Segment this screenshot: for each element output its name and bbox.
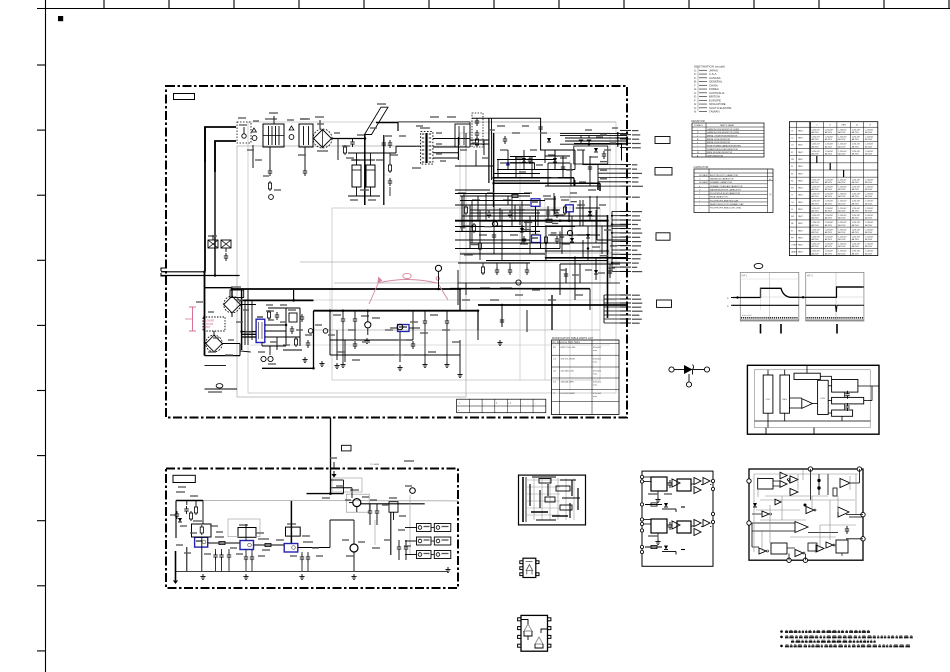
svg-text:AB 250V: AB 250V <box>825 181 833 184</box>
resistor R141 <box>544 220 546 222</box>
svg-text:68137 100-330: 68137 100-330 <box>561 347 577 349</box>
connector CN101 AC input <box>161 268 166 276</box>
IC203 dual comparator diagram <box>640 471 714 566</box>
wire pin feeders mid <box>611 211 627 271</box>
svg-text:R1: R1 <box>791 173 793 175</box>
ground G5 <box>424 362 426 365</box>
svg-text:AB 250V: AB 250V <box>852 224 860 227</box>
ground G13 <box>399 365 401 368</box>
svg-text:PARTS NAME: PARTS NAME <box>720 124 735 127</box>
capacitor C146 <box>565 271 567 274</box>
svg-text:POLYESTER FILM CAPACITOR: POLYESTER FILM CAPACITOR <box>710 192 741 195</box>
svg-text:NO MARK: NO MARK <box>699 174 709 177</box>
capacitor C109 <box>383 140 385 143</box>
resistor R112 <box>295 337 297 339</box>
wire main bus B- <box>240 299 314 301</box>
pink bracket marker <box>185 307 196 331</box>
ground marker entry <box>331 474 336 478</box>
wire stage1 to stage2 <box>208 537 240 545</box>
wire HV rail <box>348 123 417 206</box>
transistor pair Q103 <box>258 352 276 364</box>
wire control density <box>455 193 617 258</box>
label top right of box <box>404 460 414 462</box>
destination parts matrix table <box>789 122 877 256</box>
svg-text:PART: PART <box>798 208 804 211</box>
capacitor C110 <box>389 140 391 143</box>
wire low rail <box>240 290 314 368</box>
capacitor C104 <box>301 314 303 317</box>
svg-text:AB 250V: AB 250V <box>852 145 860 148</box>
connector CB-1 <box>655 137 670 144</box>
svg-text:PART: PART <box>798 165 804 168</box>
capacitor C141 <box>523 236 525 239</box>
waveform leader lines <box>761 324 838 334</box>
wire control cluster <box>455 196 627 318</box>
svg-text:AB 250V: AB 250V <box>838 195 846 198</box>
svg-text:AB 250V: AB 250V <box>838 202 846 205</box>
svg-text:AB 250V: AB 250V <box>825 245 833 248</box>
svg-text:AB 250V: AB 250V <box>865 195 873 198</box>
svg-text:AB 250V: AB 250V <box>838 238 846 241</box>
wire fuse branch <box>247 145 262 168</box>
ground G1 <box>304 357 306 360</box>
svg-text:SYMBOL: SYMBOL <box>694 125 704 127</box>
svg-text:AB 250V: AB 250V <box>838 188 846 191</box>
smoothing capacitor C111 <box>351 160 361 187</box>
wire table feeds <box>478 310 527 340</box>
svg-text:TAIWAN: TAIWAN <box>709 110 720 114</box>
svg-text:AB 250V: AB 250V <box>812 224 820 227</box>
svg-text:REG: REG <box>782 399 787 401</box>
capacitor C130 <box>540 124 542 127</box>
capacitor C101 <box>225 253 227 256</box>
svg-text:WIRE WOUND RESISTOR: WIRE WOUND RESISTOR <box>707 152 733 154</box>
capacitor C108 <box>352 139 354 142</box>
svg-text:u: u <box>699 197 700 199</box>
svg-text:NO MARK: NO MARK <box>699 181 709 184</box>
regulator IC302 (blue) <box>240 541 254 550</box>
capacitor C103 <box>304 168 306 171</box>
svg-text:MAGNESIUM FILM CAPACITOR: MAGNESIUM FILM CAPACITOR <box>710 188 741 191</box>
svg-text:PART: PART <box>798 172 804 175</box>
ground G7 <box>459 372 461 375</box>
svg-text:FUSE POWER CARBON FILM RES.: FUSE POWER CARBON FILM RES. <box>707 144 742 147</box>
main power supply circuit boundary <box>166 86 627 418</box>
snubber C113 <box>389 178 391 181</box>
capacitor C121 <box>342 316 344 319</box>
svg-text:TANTALUM CAPACITOR: TANTALUM CAPACITOR <box>710 178 734 181</box>
resistor R105 <box>344 145 346 147</box>
svg-text:AB 250V: AB 250V <box>852 188 860 191</box>
control IC IC104 (blue) <box>566 205 574 212</box>
wire secondary bus <box>314 310 479 312</box>
transistor Q108 <box>397 324 403 330</box>
svg-text:470-002: 470-002 <box>593 359 602 361</box>
svg-text:AB 250V: AB 250V <box>865 210 873 213</box>
regulator components cluster <box>266 310 297 334</box>
registration mark <box>58 16 63 21</box>
waveform ellipse marker <box>754 263 763 268</box>
bridge rectifier D101 <box>313 129 332 151</box>
power transformer T102 <box>203 317 225 331</box>
IC204 lower blocks <box>752 540 848 560</box>
reference stage upper <box>645 503 685 512</box>
wire Q301 out <box>331 488 425 504</box>
bridge rectifier D102 <box>224 296 241 313</box>
svg-text:GEN: GEN <box>841 125 846 127</box>
svg-text:AB 250V: AB 250V <box>865 181 873 184</box>
cement resistor R111 <box>221 240 231 248</box>
wire secondary detail <box>458 126 616 170</box>
connector CB-4 <box>657 300 672 307</box>
connector CB-2 <box>655 168 672 176</box>
wire loop right <box>494 144 622 192</box>
svg-text:470-002: 470-002 <box>593 347 602 349</box>
capacitor C126 <box>354 341 356 344</box>
diode D121 <box>588 211 592 215</box>
capacitor C105 <box>307 340 309 343</box>
wire bottom drops <box>343 324 447 362</box>
ground G2 <box>321 361 323 364</box>
capacitor C202 in IC <box>847 403 849 406</box>
wire bus riser <box>460 289 478 330</box>
thermistor TH102 <box>289 135 294 140</box>
wire bottom section density <box>330 311 460 372</box>
destination legend text <box>694 65 732 114</box>
IC204 input block <box>758 479 774 490</box>
svg-text:AB 250V: AB 250V <box>825 252 833 255</box>
connector link label <box>342 445 352 451</box>
wire feeders upper groups <box>560 165 620 197</box>
IC204 gate cluster <box>773 472 798 495</box>
svg-text:AB 250V: AB 250V <box>825 210 833 213</box>
svg-text:AB 250V: AB 250V <box>812 145 820 148</box>
relay RY101 <box>230 287 244 298</box>
svg-text:PART: PART <box>798 251 804 254</box>
svg-text:AB 250V: AB 250V <box>825 131 833 134</box>
svg-text:AB 250V: AB 250V <box>838 152 846 155</box>
blue tantalum C133 <box>506 162 509 165</box>
svg-text:W: W <box>697 152 699 154</box>
wire standby feed <box>331 418 335 494</box>
transistor Q303 <box>405 486 415 493</box>
svg-text:AB 250V: AB 250V <box>865 145 873 148</box>
capacitor bank stage3 <box>300 552 310 571</box>
svg-text:AB 250V: AB 250V <box>825 152 833 155</box>
svg-text:AB 250V: AB 250V <box>812 252 820 255</box>
labels right pins upper <box>600 128 618 135</box>
capacitor C143 <box>488 210 490 213</box>
svg-text:AB 250V: AB 250V <box>865 202 873 205</box>
svg-text:PART: PART <box>798 137 804 140</box>
svg-text:AB 250V: AB 250V <box>865 152 873 155</box>
wire IC201 internals <box>755 365 880 434</box>
svg-text:AB 250V: AB 250V <box>825 138 833 141</box>
wire standby top rail <box>176 492 458 543</box>
svg-text:AB 250V: AB 250V <box>865 252 873 255</box>
warning triangle 2 <box>289 126 294 130</box>
IC204 right amp <box>833 469 859 496</box>
resistor R143 <box>473 223 475 225</box>
transistor Q102 <box>323 329 328 334</box>
svg-text:AB 250V: AB 250V <box>865 224 873 227</box>
capacitor C132 <box>529 156 531 159</box>
svg-text:JW: JW <box>791 159 794 161</box>
label cluster top chain <box>238 118 406 190</box>
capacitor C147 <box>609 268 611 271</box>
svg-text:473 471-68137: 473 471-68137 <box>561 359 577 361</box>
varistor Z101 <box>263 147 281 199</box>
capacitor C135 <box>588 135 590 138</box>
svg-text:ELECTROLYTIC CAPACITOR: ELECTROLYTIC CAPACITOR <box>710 174 739 177</box>
transformer T101 <box>420 128 433 164</box>
diode D112 <box>594 148 598 152</box>
jumper strap W101 <box>365 104 389 135</box>
wire secondary rails <box>494 133 575 207</box>
svg-text:AB 250V: AB 250V <box>852 231 860 234</box>
wire pin feeders lower <box>604 295 627 323</box>
svg-text:AB 250V: AB 250V <box>812 217 820 220</box>
thermal fuse marker <box>216 384 223 388</box>
wire upper-mid stubs <box>460 130 495 166</box>
thermistor TH101 <box>252 136 257 141</box>
svg-text:AB 250V: AB 250V <box>812 195 820 198</box>
IC302 bias network <box>238 525 256 541</box>
capacitor bank stage2 <box>244 550 254 572</box>
resistor R102 <box>269 181 271 183</box>
capacitor C125 <box>412 341 414 344</box>
svg-text:AB 250V: AB 250V <box>865 188 873 191</box>
svg-text:AB 250V: AB 250V <box>852 252 860 255</box>
wire secondary rectifier comb <box>455 150 598 190</box>
svg-text:PART: PART <box>798 144 804 147</box>
circuit label bottom <box>173 475 195 482</box>
capacitor C311 <box>376 508 378 511</box>
capacitor C310 <box>369 508 371 511</box>
wire aux winding <box>398 117 470 133</box>
transistor Q105 <box>435 265 441 271</box>
label text <box>208 391 222 393</box>
wire bridge output <box>332 139 364 161</box>
wire sub trunk <box>205 235 233 356</box>
ground G3 <box>342 362 344 365</box>
wire AC line trunk <box>205 127 236 276</box>
svg-text:AB 250V: AB 250V <box>852 245 860 248</box>
control IC IC103 (blue) <box>531 199 540 207</box>
IC204 extra gates <box>753 499 849 551</box>
capacitor symbol table <box>694 165 774 212</box>
ground G17 <box>353 574 355 577</box>
svg-text:PART: PART <box>798 244 804 247</box>
transistor Q107 <box>567 230 572 235</box>
svg-text:AB 250V: AB 250V <box>852 131 860 134</box>
wire left cluster density <box>196 289 335 355</box>
capacitor C123 <box>424 318 426 321</box>
zener D301 <box>178 518 182 522</box>
connector CB-3 <box>656 233 670 240</box>
diode D114 <box>553 158 557 162</box>
wire snubber <box>384 153 390 196</box>
svg-text:0.2ms 50V: 0.2ms 50V <box>742 315 752 317</box>
IC206 DIP-8 package <box>518 615 551 651</box>
svg-text:CEMENT MOULDED RESISTOR: CEMENT MOULDED RESISTOR <box>707 149 738 151</box>
svg-text:WF-1: WF-1 <box>742 275 749 278</box>
capacitor C145 <box>501 317 503 320</box>
wire HV cap links <box>348 153 380 205</box>
IC205 SIP package <box>520 558 539 577</box>
revision strip table <box>457 399 546 413</box>
wire stage3 out <box>298 520 330 548</box>
border frame left rule <box>37 0 46 672</box>
svg-text:POLYPROPYLENE (LOW LOSS): POLYPROPYLENE (LOW LOSS) <box>710 208 741 210</box>
oscilloscope waveform panel 2 <box>799 272 864 321</box>
svg-text:AB 250V: AB 250V <box>865 231 873 234</box>
svg-text:AB 250V: AB 250V <box>838 231 846 234</box>
svg-text:470-002: 470-002 <box>593 371 602 373</box>
svg-text:AB 250V: AB 250V <box>825 224 833 227</box>
border frame top rule <box>37 0 950 9</box>
capacitor C201 in IC <box>847 391 849 394</box>
diode D124 <box>586 234 590 238</box>
svg-text:CORD: CORD <box>791 245 797 247</box>
capacitor C124 <box>446 318 448 321</box>
svg-text:AB 250V: AB 250V <box>825 202 833 205</box>
svg-text:AB 250V: AB 250V <box>838 210 846 213</box>
capacitor C149 <box>561 232 563 235</box>
svg-text:J: J <box>816 125 817 127</box>
svg-text:N:: N: <box>694 110 697 114</box>
diode D111 <box>547 138 551 142</box>
svg-text:CARBON FILM RESISTOR (1/4W): CARBON FILM RESISTOR (1/4W) <box>707 128 739 131</box>
wire AC pair <box>161 272 240 276</box>
wire lower buses <box>450 289 627 330</box>
capacitor C140 <box>509 210 511 213</box>
resistor R145 <box>479 241 481 243</box>
svg-text:AB 250V: AB 250V <box>838 217 846 220</box>
junction nodes dense band <box>203 137 608 369</box>
photocoupler PC101 <box>256 317 265 343</box>
wire mid web <box>228 478 410 555</box>
transistor Q106 <box>492 221 497 226</box>
svg-text:2SC1815 25C: 2SC1815 25C <box>561 371 575 373</box>
svg-text:AB 250V: AB 250V <box>825 231 833 234</box>
svg-text:AB 250V: AB 250V <box>865 238 873 241</box>
cement resistor R110 <box>208 236 218 248</box>
component column dotted <box>472 113 483 147</box>
svg-text:No. Reference Parts Name: No. Reference Parts Name <box>553 341 581 344</box>
block REG <box>780 375 790 413</box>
capacitor C131 <box>504 136 506 139</box>
svg-text:AB 250V: AB 250V <box>838 224 846 227</box>
component labels bottom box <box>176 458 379 492</box>
svg-text:PART: PART <box>798 151 804 154</box>
diode block D110 <box>455 124 470 147</box>
svg-text:SW: SW <box>791 216 794 218</box>
IC204 wiring web <box>752 470 863 552</box>
svg-text:LABEL: LABEL <box>791 251 797 254</box>
svg-text:AB 250V: AB 250V <box>812 231 820 234</box>
svg-text:AB 250V: AB 250V <box>825 217 833 220</box>
capacitor C313 <box>405 544 407 547</box>
wire left drop <box>176 547 187 580</box>
svg-text:PART: PART <box>798 158 804 161</box>
svg-text:PART: PART <box>798 194 804 197</box>
svg-text:R2: R2 <box>791 180 793 182</box>
diode D120 <box>570 238 574 242</box>
svg-text:●: ● <box>699 186 700 188</box>
capacitor C139 <box>589 164 591 167</box>
wire stage2 to stage3 <box>254 539 285 547</box>
connector pins right edge <box>620 130 643 323</box>
reference stage lower <box>645 545 685 554</box>
wire IC1 area <box>242 290 300 350</box>
svg-text:AB 250V: AB 250V <box>825 188 833 191</box>
svg-text:AB 250V: AB 250V <box>812 131 820 134</box>
svg-text:T1: T1 <box>791 195 793 197</box>
svg-text:CERAMIC CAPACITOR: CERAMIC CAPACITOR <box>710 181 733 184</box>
capacitor C102 <box>269 168 271 171</box>
svg-text:TO MAIN: TO MAIN <box>370 463 379 466</box>
svg-text:AB 250V: AB 250V <box>825 238 833 241</box>
capacitor C122 <box>354 316 356 319</box>
svg-text:(1): (1) <box>769 194 772 196</box>
resistor R302 <box>190 511 192 513</box>
standby power circuit boundary <box>166 469 458 589</box>
svg-text:AB 250V: AB 250V <box>838 131 846 134</box>
ground G11 <box>447 567 449 570</box>
transistor Q301 <box>346 490 369 512</box>
capacitor C302 <box>176 511 178 514</box>
svg-text:AB 250V: AB 250V <box>865 131 873 134</box>
svg-text:MICA CAPACITOR: MICA CAPACITOR <box>710 196 728 199</box>
svg-text:AB 250V: AB 250V <box>825 195 833 198</box>
resistor R130 <box>564 205 566 207</box>
regulator IC301 (blue) <box>195 537 208 547</box>
transistor Q101 <box>308 329 313 334</box>
svg-text:470-002: 470-002 <box>593 382 602 384</box>
ground G16 <box>301 574 303 577</box>
block COMP <box>832 397 864 404</box>
IC303 bias network <box>286 524 301 536</box>
svg-text:AB 250V: AB 250V <box>838 245 846 248</box>
IC204 internal circuit diagram <box>747 467 865 563</box>
svg-text:AB 250V: AB 250V <box>838 252 846 255</box>
svg-text:EI-33 BOBBIN: EI-33 BOBBIN <box>561 393 576 395</box>
svg-text:AB 250V: AB 250V <box>852 217 860 220</box>
ground G8 <box>499 340 501 343</box>
svg-text:METAL FILM RESISTOR: METAL FILM RESISTOR <box>707 141 731 144</box>
resistor symbol table <box>692 119 765 157</box>
resistor R142 <box>465 205 467 207</box>
capacitor bank stage1 <box>213 549 231 571</box>
svg-text:WF-2: WF-2 <box>807 275 814 278</box>
IC204 nodes <box>810 469 828 500</box>
svg-text:CARBON FILM RESISTOR (1/2W): CARBON FILM RESISTOR (1/2W) <box>707 131 739 134</box>
svg-text:AB 250V: AB 250V <box>865 217 873 220</box>
svg-text:PART: PART <box>798 201 804 204</box>
regulator IC303 (blue) <box>284 544 298 553</box>
svg-text:SEMICONDUCTOR CERAMIC CAP.: SEMICONDUCTOR CERAMIC CAP. <box>710 203 744 206</box>
wire loop upper <box>470 118 541 183</box>
diode D123 <box>520 228 524 232</box>
IC204 main amp <box>752 522 838 533</box>
resistor R301 <box>195 505 197 507</box>
svg-text:R3: R3 <box>791 188 793 190</box>
svg-text:AB 250V: AB 250V <box>865 245 873 248</box>
wire filter stub <box>269 113 324 168</box>
block DRIVER <box>818 380 829 414</box>
wire to pins top group <box>560 132 627 147</box>
